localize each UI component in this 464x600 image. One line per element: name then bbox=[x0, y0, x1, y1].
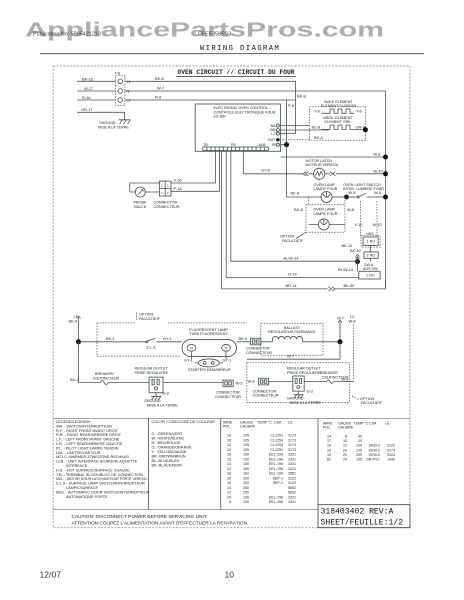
svg-text:SW. - SWITCH/INTERRUPTEUR: SW. - SWITCH/INTERRUPTEUR bbox=[56, 424, 112, 428]
svg-text:ELEMENT GRIL: ELEMENT GRIL bbox=[325, 120, 352, 124]
svg-text:W-8: W-8 bbox=[347, 207, 354, 212]
svg-text:2: 2 bbox=[161, 191, 163, 195]
svg-text:PRISE REGULIERE: PRISE REGULIERE bbox=[135, 371, 169, 375]
wire O-14 row bbox=[226, 151, 359, 278]
svg-text:MISE A LA TERRE: MISE A LA TERRE bbox=[290, 401, 321, 405]
svg-text:W-8: W-8 bbox=[248, 378, 255, 383]
svg-text:FACULTATIF: FACULTATIF bbox=[361, 401, 383, 405]
svg-text:R. -RED/ROUGE: R. -RED/ROUGE bbox=[152, 441, 182, 445]
svg-text:Publication No: 5995421213: Publication No: 5995421213 bbox=[33, 32, 101, 38]
svg-text:FACULTATIF: FACULTATIF bbox=[139, 317, 161, 321]
svg-text:W. -WHITE/BLANC: W. -WHITE/BLANC bbox=[152, 437, 185, 441]
svg-text:L2: L2 bbox=[127, 99, 131, 103]
node L1 drop bbox=[69, 313, 82, 344]
svg-text:3122: 3122 bbox=[387, 444, 395, 448]
wire N W from terminal block to right vertical bbox=[77, 86, 386, 91]
svg-text:V-16: V-16 bbox=[174, 178, 182, 183]
svg-text:8: 8 bbox=[345, 435, 347, 439]
svg-text:3321: 3321 bbox=[288, 453, 296, 457]
svg-text:T.B. - TERMINAL BLOCK/BLOC DE: T.B. - TERMINAL BLOCK/BLOC DE CONNECTION bbox=[56, 473, 143, 477]
svg-text:SEW-1: SEW-1 bbox=[369, 448, 380, 452]
svg-text:T.B.: T.B. bbox=[115, 70, 122, 75]
svg-text:12: 12 bbox=[343, 444, 347, 448]
chassis ground symbol bbox=[98, 120, 131, 130]
svg-text:N: N bbox=[127, 90, 130, 94]
svg-text:M.D.C.-WARMER ZONE/ZONE RECHAU: M.D.C.-WARMER ZONE/ZONE RECHAUD bbox=[56, 455, 130, 459]
svg-text:5652: 5652 bbox=[288, 491, 296, 495]
svg-text:GY-1: GY-1 bbox=[163, 336, 172, 341]
svg-text:BL.-BLUE/BLEU: BL.-BLUE/BLEU bbox=[152, 459, 180, 463]
svg-text:L1: L1 bbox=[127, 80, 131, 84]
svg-text:18: 18 bbox=[227, 472, 231, 476]
svg-text:105: 105 bbox=[243, 443, 249, 447]
svg-text:TEMP °C: TEMP °C bbox=[257, 421, 272, 425]
svg-text:LCB. - UNIT INTERFACE BOARD/PL: LCB. - UNIT INTERFACE BOARD/PLAQUETTE bbox=[56, 460, 138, 464]
svg-text:CL1254: CL1254 bbox=[270, 443, 283, 447]
svg-text:S.L.S.- SURFACE LAMP SWITCH/IN: S.L.S.- SURFACE LAMP SWITCH/INTERRUPTEUR bbox=[56, 482, 145, 486]
svg-text:16: 16 bbox=[227, 476, 231, 480]
svg-text:18: 18 bbox=[327, 448, 331, 452]
option oven lamp DS2 dashed box bbox=[294, 197, 354, 232]
oven light switch SW1 bbox=[343, 183, 388, 200]
svg-text:3321: 3321 bbox=[288, 500, 296, 504]
starter demarreur bbox=[184, 352, 231, 372]
svg-text:REGULAR OUTLET: REGULAR OUTLET bbox=[287, 367, 321, 371]
EOC terminal strip bbox=[203, 147, 269, 151]
svg-text:MISE A LA TERRE: MISE A LA TERRE bbox=[98, 125, 129, 129]
svg-text:12/07: 12/07 bbox=[40, 570, 62, 580]
svg-text:W-2: W-2 bbox=[236, 380, 243, 385]
probe temperature sensor bbox=[134, 187, 147, 209]
svg-text:AppliancePartsPros.com: AppliancePartsPros.com bbox=[25, 19, 384, 41]
svg-text:14: 14 bbox=[227, 462, 231, 466]
svg-text:12: 12 bbox=[227, 491, 231, 495]
svg-text:EEL-196: EEL-196 bbox=[269, 462, 283, 466]
svg-text:ADS. - AUTOMATIC DOOR SWITCH/I: ADS. - AUTOMATIC DOOR SWITCH/INTERRUPTEU… bbox=[56, 490, 150, 494]
svg-text:BK-2: BK-2 bbox=[70, 377, 79, 382]
svg-text:105: 105 bbox=[243, 438, 249, 442]
svg-text:200: 200 bbox=[356, 444, 362, 448]
svg-text:L1: L1 bbox=[271, 132, 275, 136]
wire L2 R from terminal block down to EOC IN bbox=[77, 94, 306, 145]
svg-text:3561: 3561 bbox=[288, 472, 296, 476]
wire gauge table 2 bbox=[323, 422, 395, 462]
svg-text:14: 14 bbox=[227, 443, 231, 447]
svg-text:COLOR CODE/CODE DE COULEUR: COLOR CODE/CODE DE COULEUR bbox=[152, 420, 216, 424]
svg-text:TEMP °C: TEMP °C bbox=[354, 422, 369, 426]
ballast dashed box with inductor bbox=[261, 323, 340, 355]
svg-text:81: 81 bbox=[327, 458, 331, 462]
svg-text:CONNECTEUR: CONNECTEUR bbox=[154, 205, 180, 209]
svg-text:UL: UL bbox=[288, 421, 293, 425]
right vertical neutral wire bbox=[385, 91, 387, 289]
svg-text:17: 17 bbox=[327, 439, 331, 443]
wire W-7 ballast return bbox=[247, 342, 340, 359]
surface lamp switch S.L.S. bbox=[146, 336, 182, 350]
svg-text:SEW-2: SEW-2 bbox=[369, 444, 380, 448]
svg-text:P5: P5 bbox=[231, 143, 236, 147]
svg-text:W-8: W-8 bbox=[374, 152, 381, 157]
svg-text:LAMPE FOUR: LAMPE FOUR bbox=[314, 212, 338, 216]
option outlet dashed box bbox=[247, 363, 350, 403]
svg-text:CFEF358ES3: CFEF358ES3 bbox=[198, 32, 231, 38]
svg-text:BK-1: BK-1 bbox=[106, 336, 115, 341]
svg-text:W-17: W-17 bbox=[84, 86, 93, 91]
svg-text:W-7: W-7 bbox=[337, 316, 344, 321]
svg-text:CL1251: CL1251 bbox=[270, 448, 283, 452]
junction broil right node bbox=[363, 127, 368, 132]
svg-text:3173: 3173 bbox=[387, 448, 395, 452]
option facultatif label right bbox=[352, 396, 383, 405]
option facultatif label left bbox=[137, 313, 162, 321]
svg-text:EEL-196: EEL-196 bbox=[269, 495, 283, 499]
svg-text:24: 24 bbox=[343, 458, 347, 462]
svg-text:105: 105 bbox=[243, 448, 249, 452]
svg-text:ATTENTION:COUPEZ L'ALIMENTATIO: ATTENTION:COUPEZ L'ALIMENTATION AVANT D'… bbox=[72, 520, 249, 526]
svg-text:GY-1: GY-1 bbox=[184, 357, 193, 362]
svg-text:POL.: POL. bbox=[323, 425, 331, 429]
svg-text:BK-16: BK-16 bbox=[82, 76, 93, 81]
connector ballast input bbox=[246, 338, 272, 355]
svg-text:Y-8: Y-8 bbox=[314, 108, 320, 113]
svg-text:CAUTION: DISCONNECT POWER BEFO: CAUTION: DISCONNECT POWER BEFORE SERVICI… bbox=[72, 514, 208, 520]
svg-text:IN: IN bbox=[272, 143, 276, 147]
svg-text:S.L.S.: S.L.S. bbox=[146, 344, 157, 349]
svg-text:ES 300: ES 300 bbox=[214, 115, 226, 119]
svg-text:12: 12 bbox=[227, 448, 231, 452]
svg-text:BK-8: BK-8 bbox=[155, 76, 164, 81]
svg-text:BL/W-14: BL/W-14 bbox=[284, 255, 300, 260]
svg-text:MISE A LA TERRE: MISE A LA TERRE bbox=[147, 403, 178, 407]
terminal block T.B. bbox=[115, 70, 131, 105]
svg-text:3321: 3321 bbox=[288, 495, 296, 499]
ground outlet 2 bbox=[287, 389, 321, 405]
caution note bbox=[72, 514, 249, 526]
svg-text:3321: 3321 bbox=[288, 467, 296, 471]
svg-text:SAUCE: SAUCE bbox=[134, 205, 147, 209]
electronic oven control U1 bbox=[195, 104, 280, 151]
svg-text:150: 150 bbox=[243, 453, 249, 457]
svg-text:3321: 3321 bbox=[288, 457, 296, 461]
svg-text:8: 8 bbox=[229, 500, 231, 504]
svg-text:20: 20 bbox=[343, 448, 347, 452]
svg-text:BL/W-14: BL/W-14 bbox=[338, 267, 354, 272]
svg-text:105: 105 bbox=[356, 458, 362, 462]
svg-text:W-8: W-8 bbox=[342, 376, 349, 381]
svg-text:150: 150 bbox=[243, 462, 249, 466]
revision box bbox=[318, 505, 410, 528]
svg-text:R.F. - RIGHT FRONT/AVANT DROIT: R.F. - RIGHT FRONT/AVANT DROIT bbox=[56, 429, 119, 433]
svg-text:200: 200 bbox=[243, 476, 249, 480]
svg-text:POL.: POL. bbox=[223, 424, 231, 428]
svg-text:SEW-2: SEW-2 bbox=[369, 453, 380, 457]
BK-10 disconnect node bbox=[342, 243, 362, 264]
svg-text:G. -GREEN/VERT: G. -GREEN/VERT bbox=[152, 432, 184, 436]
svg-text:L.F. - LEFT FRONT/AVANT GAUCHE: L.F. - LEFT FRONT/AVANT GAUCHE bbox=[56, 438, 120, 442]
svg-text:1: 1 bbox=[167, 184, 169, 188]
svg-text:3173: 3173 bbox=[288, 434, 296, 438]
svg-text:BK-8: BK-8 bbox=[314, 135, 323, 140]
svg-text:BA: BA bbox=[271, 124, 276, 128]
svg-text:R-16: R-16 bbox=[82, 95, 90, 100]
svg-text:BK-50: BK-50 bbox=[344, 283, 356, 288]
bake element R1 bbox=[314, 100, 362, 113]
svg-text:1: 1 bbox=[161, 184, 163, 188]
wire W-8 row bbox=[281, 152, 388, 160]
svg-text:BREAKER: BREAKER bbox=[320, 371, 338, 375]
svg-text:BR-14: BR-14 bbox=[286, 283, 298, 288]
probe connector J1 bbox=[130, 151, 220, 209]
svg-text:20: 20 bbox=[343, 453, 347, 457]
svg-text:16: 16 bbox=[327, 444, 331, 448]
svg-text:250: 250 bbox=[243, 491, 249, 495]
svg-text:O-14: O-14 bbox=[288, 272, 297, 277]
svg-text:1 NO: 1 NO bbox=[366, 274, 375, 278]
svg-text:P-16: P-16 bbox=[174, 186, 182, 191]
regular outlet 2 bbox=[269, 376, 304, 391]
wire GR-17 to ground bbox=[77, 107, 125, 120]
svg-text:40: 40 bbox=[358, 439, 362, 443]
svg-text:G-2: G-2 bbox=[307, 389, 314, 394]
svg-text:3122: 3122 bbox=[387, 453, 395, 457]
svg-text:W-8: W-8 bbox=[374, 190, 381, 195]
svg-text:18: 18 bbox=[227, 481, 231, 485]
svg-text:GY-1: GY-1 bbox=[223, 357, 232, 362]
sheet border bbox=[53, 66, 410, 528]
svg-text:MOTEUR VERROU: MOTEUR VERROU bbox=[306, 163, 339, 167]
svg-text:R.R. - RIGHT REAR/ARRIERE DROI: R.R. - RIGHT REAR/ARRIERE DROIT bbox=[56, 433, 122, 437]
svg-text:105: 105 bbox=[356, 448, 362, 452]
svg-text:Y-8: Y-8 bbox=[356, 108, 362, 113]
svg-text:EEL-196: EEL-196 bbox=[269, 457, 283, 461]
svg-text:W-10: W-10 bbox=[374, 168, 384, 173]
svg-text:Y. -YELLOW/JAUNE: Y. -YELLOW/JAUNE bbox=[152, 450, 187, 454]
svg-text:R-8: R-8 bbox=[155, 95, 161, 100]
svg-text:EEL-196: EEL-196 bbox=[269, 467, 283, 471]
svg-text:CSA: CSA bbox=[274, 421, 282, 425]
svg-text:L.R. - LEFT REAR/ARRIERE GAUCH: L.R. - LEFT REAR/ARRIERE GAUCHE bbox=[56, 442, 123, 446]
svg-text:CALIBRE: CALIBRE bbox=[240, 424, 256, 428]
svg-text:INTERFACE: INTERFACE bbox=[66, 464, 88, 468]
svg-text:BK.-BLACK/NOIR: BK.-BLACK/NOIR bbox=[152, 464, 183, 468]
svg-text:3173: 3173 bbox=[288, 438, 296, 442]
svg-text:W-10: W-10 bbox=[373, 222, 383, 227]
option dashed outline fluorescent bbox=[97, 323, 247, 356]
svg-text:3173: 3173 bbox=[288, 443, 296, 447]
svg-text:SHEET/FEUILLE:1/2: SHEET/FEUILLE:1/2 bbox=[321, 519, 404, 528]
svg-text:EEL-196: EEL-196 bbox=[269, 453, 283, 457]
svg-text:SR-PVC: SR-PVC bbox=[366, 458, 380, 462]
wire BA to bake element bbox=[279, 125, 309, 127]
svg-text:ALB: ALB bbox=[259, 143, 267, 147]
wire BK-1 to lamp switch bbox=[79, 336, 146, 342]
svg-text:LEGEND/LEGENDE: LEGEND/LEGENDE bbox=[56, 420, 91, 424]
oven lamp DS1 row bbox=[287, 145, 358, 203]
svg-text:BK-8: BK-8 bbox=[294, 207, 303, 212]
wire OUT dashed to element box bbox=[280, 139, 310, 141]
svg-text:162: 162 bbox=[243, 472, 249, 476]
elements dashed box bbox=[309, 107, 365, 141]
svg-text:2 NO: 2 NO bbox=[367, 254, 376, 258]
breaker 2 bbox=[304, 376, 353, 383]
svg-text:3122: 3122 bbox=[288, 476, 296, 480]
svg-text:EEL-199: EEL-199 bbox=[269, 472, 283, 476]
svg-text:16: 16 bbox=[227, 457, 231, 461]
svg-text:REGULATEUR-PUISSANCE: REGULATEUR-PUISSANCE bbox=[268, 330, 316, 334]
svg-text:P-8: P-8 bbox=[288, 103, 294, 108]
svg-text:3122: 3122 bbox=[288, 481, 296, 485]
svg-text:BK-5: BK-5 bbox=[239, 336, 248, 341]
wire BR-14 BK-50 row with disconnect arrows bbox=[222, 151, 386, 291]
wire BK-2 breaker 1 bbox=[70, 342, 149, 385]
svg-text:O. -ORANGE/ORANGE: O. -ORANGE/ORANGE bbox=[152, 446, 193, 450]
svg-text:318403402 REV:A: 318403402 REV:A bbox=[321, 507, 394, 516]
svg-text:OVEN CIRCUIT // CIRCUIT DU FOU: OVEN CIRCUIT // CIRCUIT DU FOUR bbox=[177, 69, 294, 76]
svg-text:UL: UL bbox=[385, 422, 390, 426]
svg-text:OUT: OUT bbox=[268, 138, 277, 142]
color code text bbox=[152, 420, 216, 468]
svg-text:5652: 5652 bbox=[288, 486, 296, 490]
svg-text:STARTER/ DEMARREUR: STARTER/ DEMARREUR bbox=[188, 368, 231, 372]
HSS switch cluster bbox=[355, 201, 383, 261]
svg-text:CL1254: CL1254 bbox=[270, 438, 283, 442]
svg-text:150: 150 bbox=[243, 457, 249, 461]
svg-text:200: 200 bbox=[356, 453, 362, 457]
svg-text:19: 19 bbox=[327, 453, 331, 457]
regular outlet 1 bbox=[135, 367, 224, 393]
svg-text:1430: 1430 bbox=[387, 458, 395, 462]
svg-text:Y-10: Y-10 bbox=[355, 222, 364, 227]
svg-text:TUBE FLUORESCENT: TUBE FLUORESCENT bbox=[189, 332, 228, 336]
svg-text:3321: 3321 bbox=[288, 462, 296, 466]
svg-text:G-2: G-2 bbox=[163, 390, 170, 395]
header rule bbox=[40, 53, 424, 55]
junction IN node bbox=[284, 142, 289, 147]
svg-text:40: 40 bbox=[358, 435, 362, 439]
svg-text:200: 200 bbox=[243, 481, 249, 485]
node W-7 L2 pins bbox=[337, 314, 356, 381]
svg-text:BK-8: BK-8 bbox=[291, 190, 300, 195]
svg-text:10: 10 bbox=[343, 439, 347, 443]
svg-text:16: 16 bbox=[227, 438, 231, 442]
svg-text:MDL. - MOTOR DOOR LATCH/MOTEUR: MDL. - MOTOR DOOR LATCH/MOTEUR PORTE VER… bbox=[56, 477, 147, 481]
svg-text:150: 150 bbox=[243, 467, 249, 471]
svg-text:SEP-1: SEP-1 bbox=[273, 481, 283, 485]
svg-text:BL-8: BL-8 bbox=[312, 125, 320, 130]
ADS automatic door switch bbox=[358, 262, 381, 279]
svg-text:CL1251: CL1251 bbox=[270, 434, 283, 438]
svg-text:1 NO: 1 NO bbox=[367, 240, 376, 244]
svg-text:14: 14 bbox=[227, 486, 231, 490]
EOC right pins BA BR L1 OUT IN bbox=[268, 124, 280, 147]
svg-text:LAMPE-SURFACE: LAMPE-SURFACE bbox=[66, 486, 99, 490]
svg-text:250: 250 bbox=[243, 486, 249, 490]
svg-text:FACULTATIF: FACULTATIF bbox=[282, 239, 304, 243]
svg-text:LIM. - LIMITER/LIMITEUR: LIM. - LIMITER/LIMITEUR bbox=[56, 451, 101, 455]
wire L1 BK from terminal block to EOC L1 bbox=[77, 76, 296, 134]
svg-text:TB: TB bbox=[203, 143, 208, 147]
connector 1 bbox=[215, 380, 243, 399]
svg-text:18: 18 bbox=[227, 453, 231, 457]
ground outlet 1 bbox=[144, 390, 178, 407]
svg-text:AUTOMATIQUE PORTE: AUTOMATIQUE PORTE bbox=[66, 495, 108, 499]
svg-text:BK-8: BK-8 bbox=[69, 319, 78, 324]
svg-text:W-8: W-8 bbox=[349, 319, 356, 324]
svg-text:20: 20 bbox=[227, 495, 231, 499]
svg-text:CONNECTEUR: CONNECTEUR bbox=[253, 394, 279, 398]
wire BK-5 to ballast connector bbox=[237, 336, 251, 342]
option facultatif label upper bbox=[280, 232, 306, 243]
svg-text:10: 10 bbox=[225, 570, 235, 580]
svg-text:EEL-196: EEL-196 bbox=[269, 500, 283, 504]
svg-text:105: 105 bbox=[243, 434, 249, 438]
svg-text:LAMPE FOUR: LAMPE FOUR bbox=[314, 187, 338, 191]
svg-text:CALIBRE: CALIBRE bbox=[338, 425, 354, 429]
motor latch MDL row bbox=[243, 151, 388, 179]
svg-text:PRISE REGULIERE: PRISE REGULIERE bbox=[287, 371, 321, 375]
svg-text:BK-10: BK-10 bbox=[350, 248, 362, 253]
svg-text:18: 18 bbox=[227, 434, 231, 438]
svg-text:14: 14 bbox=[327, 435, 331, 439]
svg-text:150: 150 bbox=[243, 500, 249, 504]
svg-text:ELEMENT CUISSON: ELEMENT CUISSON bbox=[321, 104, 357, 108]
svg-text:12: 12 bbox=[227, 467, 231, 471]
svg-text:CONNECTEUR: CONNECTEUR bbox=[215, 395, 241, 399]
svg-text:3173: 3173 bbox=[288, 448, 296, 452]
svg-text:W-7: W-7 bbox=[287, 354, 294, 359]
svg-text:ADS SW.: ADS SW. bbox=[363, 267, 378, 271]
svg-text:BK-8: BK-8 bbox=[297, 94, 306, 99]
broil element R2 bbox=[312, 116, 365, 130]
svg-text:P.L. - PILOT LIGHT/LAMPE TEMOI: P.L. - PILOT LIGHT/LAMPE TEMOIN bbox=[56, 446, 119, 450]
svg-text:SEP-1: SEP-1 bbox=[273, 476, 283, 480]
svg-text:CSA: CSA bbox=[369, 422, 377, 426]
svg-text:DISJONCTEUR: DISJONCTEUR bbox=[93, 376, 120, 380]
legend box frame bbox=[53, 418, 410, 509]
connector 2 bbox=[248, 378, 279, 397]
svg-text:GY-8: GY-8 bbox=[261, 167, 270, 172]
svg-text:150: 150 bbox=[243, 495, 249, 499]
svg-text:WIRING DIAGRAM: WIRING DIAGRAM bbox=[200, 45, 280, 53]
wire gauge table 1 bbox=[223, 421, 296, 505]
wire BL/W-14 row bbox=[231, 151, 358, 272]
fluorescent lamp tube bbox=[182, 328, 237, 357]
svg-text:W-7: W-7 bbox=[157, 86, 164, 91]
svg-text:H.S. - HOT SURFACE/SURFACE CHA: H.S. - HOT SURFACE/SURFACE CHAUDE bbox=[56, 468, 130, 472]
wire BR to broil element bbox=[279, 129, 329, 131]
legend text bbox=[56, 420, 150, 499]
svg-text:2: 2 bbox=[167, 191, 169, 195]
svg-text:BR.-BROWN/BRUN: BR.-BROWN/BRUN bbox=[152, 455, 186, 459]
svg-text:GR-17: GR-17 bbox=[81, 107, 92, 112]
svg-text:CONNECTEUR: CONNECTEUR bbox=[246, 351, 272, 355]
